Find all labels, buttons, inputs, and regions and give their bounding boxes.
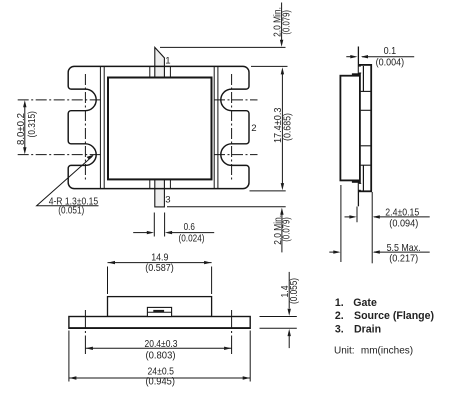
front view: lead tab [147, 307, 171, 316]
center line vertical (right slots) [231, 74, 233, 181]
svg-text:Gate: Gate [353, 297, 377, 309]
side view: body column [360, 65, 371, 191]
side view: lead slot notch bottom [359, 183, 361, 189]
svg-text:20.4±0.3: 20.4±0.3 [145, 339, 178, 350]
side view: lead 3 line [357, 181, 359, 207]
dimension 0.6 (lead width) [133, 213, 214, 237]
cap (top view, bold square) [108, 78, 212, 180]
lead slot marks (top view) [150, 66, 171, 188]
center line horizontal (upper slots) [18, 74, 258, 181]
side view: inner lead lines [362, 66, 364, 91]
dimension 20.4±0.3 (slot centers distance) [85, 310, 231, 355]
center line horizontal (lower slots) [18, 154, 102, 156]
lead 3 (top view, drain lead) [155, 179, 165, 207]
svg-text:(0.803): (0.803) [146, 351, 176, 362]
svg-text:0.6: 0.6 [184, 222, 196, 233]
svg-text:(0.051): (0.051) [58, 206, 84, 217]
dimension 1.4 (flange thickness) [260, 272, 297, 348]
svg-text:(0.004): (0.004) [376, 58, 405, 69]
svg-text:(0.079): (0.079) [281, 10, 292, 35]
flange outline with 4 mounting slots (top view) [68, 66, 249, 188]
svg-text:Unit:: Unit: [334, 345, 355, 356]
svg-text:(0.587): (0.587) [145, 263, 174, 274]
svg-text:(0.685): (0.685) [283, 113, 294, 141]
dimension 8.0±0.2 (slot pitch) [24, 103, 26, 152]
svg-text:5.5 Max.: 5.5 Max. [387, 243, 421, 254]
dimension 5.5 Max. (total thickness) [329, 185, 429, 262]
dimension 0.1 (lead thickness) [346, 56, 355, 58]
svg-text:(0.024): (0.024) [179, 233, 205, 244]
dimension 2.4±0.15 (body thickness) [345, 192, 430, 263]
side view: ceramic layer lines [361, 91, 371, 165]
svg-text:2: 2 [251, 123, 256, 134]
side view: flange [340, 76, 360, 181]
svg-text:Drain: Drain [354, 323, 381, 335]
dimension 17.4±0.3 (flange height) [281, 71, 283, 187]
center line vertical (left slots) [84, 74, 86, 181]
svg-text:(0.094): (0.094) [389, 218, 418, 229]
front view: body [108, 297, 212, 317]
svg-text:0.1: 0.1 [384, 46, 397, 57]
leader 4-R 1.3±0.15 (slot radius callout) [37, 156, 99, 206]
svg-text:2.: 2. [335, 310, 344, 322]
front view: lead cross-section (filled) [153, 310, 164, 312]
svg-text:2.4±0.15: 2.4±0.15 [385, 207, 419, 218]
svg-text:8.0±0.2: 8.0±0.2 [16, 113, 27, 145]
dimension 2.0 Min. (top lead length) [160, 3, 288, 67]
svg-text:(0.217): (0.217) [389, 254, 418, 265]
svg-text:(0.315): (0.315) [27, 111, 38, 137]
side view: lead 1 line [357, 47, 359, 76]
svg-text:1.: 1. [335, 297, 344, 309]
svg-text:Source (Flange): Source (Flange) [354, 310, 434, 322]
svg-text:3: 3 [165, 194, 170, 205]
lead 1 (top view, gate lead with beveled tip) [155, 47, 165, 77]
svg-text:(0.055): (0.055) [289, 278, 300, 304]
front view: flange bar bottom edge (thick) [69, 327, 250, 329]
side view: lead slot notch top [359, 67, 361, 73]
side view: lead foot top [352, 73, 359, 75]
body edge lines (top view) [100, 66, 217, 188]
dimension 14.9 (cap width) [108, 263, 212, 294]
dimension 24±0.5 (flange width) [69, 331, 250, 382]
svg-text:(0.945): (0.945) [145, 377, 175, 388]
side view: lead foot bottom [352, 180, 359, 182]
svg-text:1: 1 [165, 55, 170, 66]
svg-text:3.: 3. [335, 323, 344, 335]
svg-text:mm(inches): mm(inches) [361, 345, 413, 356]
dimension 2.0 Min. (bottom lead length) [167, 191, 286, 253]
svg-text:(0.079): (0.079) [282, 217, 293, 242]
front view: flange bar [69, 317, 250, 329]
